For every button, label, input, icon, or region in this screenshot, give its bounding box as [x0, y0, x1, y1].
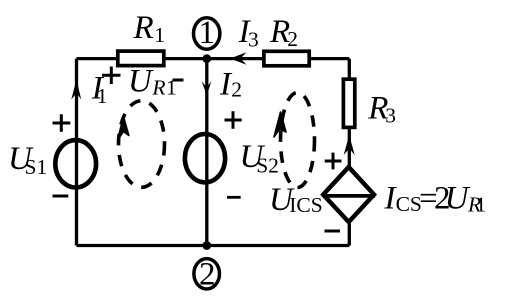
svg-text:3: 3 [248, 28, 259, 52]
svg-text:U: U [445, 181, 471, 217]
svg-text:R: R [151, 76, 165, 100]
svg-text:CS: CS [396, 192, 422, 216]
svg-text:2: 2 [231, 77, 242, 101]
svg-text:S1: S1 [25, 155, 48, 179]
svg-text:1: 1 [97, 84, 108, 108]
svg-text:ICS: ICS [289, 193, 322, 217]
svg-text:R: R [133, 10, 154, 46]
svg-text:S2: S2 [256, 154, 279, 178]
svg-text:1: 1 [476, 192, 487, 216]
svg-text:3: 3 [385, 103, 396, 127]
svg-text:1: 1 [199, 15, 216, 51]
svg-text:2: 2 [199, 257, 216, 293]
svg-text:U: U [128, 63, 154, 99]
svg-text:1: 1 [154, 23, 165, 47]
svg-text:2: 2 [287, 27, 298, 51]
svg-text:1: 1 [166, 76, 177, 100]
